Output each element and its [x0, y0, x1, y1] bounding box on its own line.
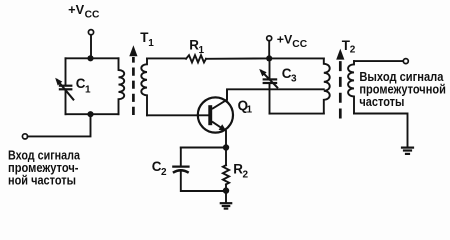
wire: R1 to VCC junction to T2 primary top [206, 57, 324, 59]
resistor R1 zigzag [186, 55, 206, 62]
inductor T2 secondary winding [348, 61, 354, 113]
capacitor C2 plates [172, 167, 189, 173]
wire: R2 top lead [225, 148, 227, 166]
svg-text:3: 3 [291, 74, 297, 85]
wire: T2 secondary bottom to ground [354, 114, 408, 147]
svg-text:1: 1 [85, 84, 91, 95]
junction dot: left VCC / box top [87, 55, 93, 61]
svg-text:частоты: частоты [359, 94, 404, 109]
wire: T2 secondary top to output terminal [354, 60, 403, 62]
junction dot: right VCC / top rail [266, 55, 272, 61]
wire: T1 secondary top to R1 [147, 57, 186, 59]
svg-text:CC: CC [292, 39, 307, 50]
svg-text:CC: CC [85, 10, 100, 21]
wire: C2 bottom lead and bottom wire to R2 [181, 172, 226, 192]
wire: C3 bottom lead down to lower rail [269, 84, 271, 114]
transformer T1 core dashed arrow [129, 45, 137, 115]
label +VCC (right) [277, 32, 307, 50]
terminal: left VCC [88, 30, 93, 35]
label C2 [152, 159, 167, 178]
ground symbol at output [401, 148, 414, 154]
junction dot: box bottom / input [87, 111, 93, 117]
capacitor C3 plates (variable) [263, 79, 278, 83]
svg-text:+V: +V [277, 32, 293, 46]
junction dot: emitter / C2 / R2 [223, 144, 229, 150]
svg-text:1: 1 [247, 105, 253, 116]
wire: left VCC stem [90, 35, 92, 59]
label Q1 [238, 98, 253, 116]
capacitor C3 arrow [259, 69, 278, 88]
capacitor C1 arrow [55, 78, 74, 101]
ground symbol under R2 [220, 203, 233, 208]
label C1 [76, 76, 91, 95]
wire: emitter junction to C2 top [181, 147, 226, 149]
svg-text:+V: +V [68, 2, 84, 17]
wire: tank box 1 left side (C1 leads) [65, 58, 67, 114]
label C3 [282, 66, 297, 85]
terminal: input [22, 134, 27, 139]
svg-text:2: 2 [161, 167, 167, 178]
junction dot: R2 bottom / C2 bottom [223, 187, 229, 193]
transistor Q1 [198, 89, 233, 132]
wire: input drop from bottom rail [28, 114, 91, 136]
label T1 [140, 30, 154, 49]
inductor T2 primary winding [324, 58, 330, 113]
svg-text:1: 1 [199, 45, 205, 56]
wire: base lead from T1 secondary to Q1 [147, 114, 208, 116]
label R2 [233, 162, 248, 181]
wire: mid rail (collector to T2 tap) [227, 89, 324, 100]
label +VCC (left) [68, 2, 99, 21]
text: output signal caption [359, 69, 446, 109]
inductor T1 secondary winding [141, 58, 147, 115]
label T2 [342, 38, 356, 56]
wire: R2 bottom lead [225, 184, 227, 190]
wire: C3 top lead [269, 58, 271, 78]
inductor T1 primary winding [119, 58, 125, 114]
wire: Q1 emitter lead down [225, 131, 227, 148]
wire: C2 top lead [180, 148, 182, 166]
wire: ground stem below R2 [225, 191, 227, 203]
svg-text:2: 2 [350, 45, 356, 56]
wire: tank box 1 top rail [66, 57, 119, 59]
text: input signal caption [8, 148, 81, 188]
terminal: output [403, 59, 408, 64]
capacitor C1 plates (variable) [59, 86, 73, 90]
resistor R2 zigzag [223, 165, 229, 184]
svg-text:2: 2 [243, 169, 249, 180]
svg-text:1: 1 [148, 38, 154, 49]
terminal: right VCC [267, 36, 272, 41]
wire: right VCC stem [268, 41, 270, 59]
svg-text:ной частоты: ной частоты [8, 172, 76, 187]
wire: lower rail (C3 bottom to T2 primary bottom) [270, 113, 324, 115]
wire: tank box 1 bottom rail [66, 113, 119, 115]
transformer T2 core dashed arrow [336, 49, 344, 119]
label R1 [189, 37, 204, 55]
